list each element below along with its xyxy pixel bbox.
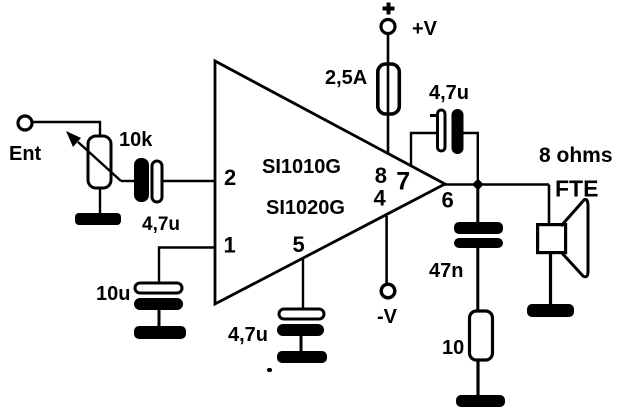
potentiometer R1 10k <box>66 129 153 188</box>
svg-text:SI1020G: SI1020G <box>266 197 345 219</box>
wire R2 to ground <box>476 360 479 397</box>
input terminal Ent <box>9 116 42 165</box>
svg-text:2,5A: 2,5A <box>325 67 367 89</box>
wire output rail to capacitor C5 <box>476 184 479 223</box>
wire pin 7 to capacitor C4 <box>411 133 436 166</box>
svg-text:7: 7 <box>396 168 410 196</box>
svg-text:-V: -V <box>377 306 398 328</box>
capacitor C1 4,7u (input coupling, electrolytic) <box>134 158 180 235</box>
wire input terminal to potentiometer top <box>32 122 100 137</box>
wire pin 1 to capacitor C2 <box>159 248 215 284</box>
svg-text:2: 2 <box>224 165 236 190</box>
ground (potentiometer) <box>75 213 121 225</box>
svg-text:SI1010G: SI1010G <box>262 156 341 178</box>
capacitor C2 10u (electrolytic) <box>96 283 183 310</box>
wire C5 to resistor R2 <box>476 248 479 312</box>
svg-text:10: 10 <box>442 337 464 359</box>
speaker FTE 8 ohms <box>538 144 613 277</box>
ground (C2) <box>134 326 186 339</box>
svg-text:47n: 47n <box>429 260 463 282</box>
wire pin 4 to -V terminal <box>385 216 388 284</box>
wire pot wiper to capacitor C1 <box>121 180 135 182</box>
svg-text:4,7u: 4,7u <box>429 82 469 104</box>
ground (R2) <box>456 395 505 407</box>
wire speaker to ground <box>549 254 552 306</box>
wire C1 to pin 2 <box>162 180 215 182</box>
ground (speaker) <box>527 304 574 317</box>
capacitor C4 4,7u (bootstrap, electrolytic) <box>429 82 469 154</box>
ground (C3) <box>277 351 327 363</box>
wire speaker branch down <box>548 185 551 226</box>
wire C3 to ground <box>300 336 303 352</box>
node +V terminal <box>381 3 438 41</box>
op-amp U1 (power amplifier triangle) <box>215 61 445 304</box>
svg-text:8: 8 <box>375 163 387 188</box>
svg-text:6: 6 <box>442 188 454 213</box>
node -V terminal <box>377 284 398 328</box>
svg-text:4,7u: 4,7u <box>228 324 268 346</box>
capacitor C5 47n <box>429 222 503 282</box>
stray dot <box>267 368 272 372</box>
svg-text:FTE: FTE <box>555 176 598 202</box>
resistor R2 10 <box>442 311 493 360</box>
svg-text:10k: 10k <box>119 129 153 151</box>
svg-text:Ent: Ent <box>9 143 42 165</box>
svg-text:4: 4 <box>374 186 387 211</box>
svg-text:1: 1 <box>224 233 236 258</box>
svg-text:8 ohms: 8 ohms <box>539 144 613 167</box>
wire C2 to ground <box>158 310 161 327</box>
wire pin 5 to capacitor C3 <box>302 258 304 310</box>
wire +V through fuse to pin 8 <box>387 34 390 153</box>
wire C4 to output rail <box>463 133 478 186</box>
capacitor C3 4,7u (electrolytic) <box>228 309 324 346</box>
svg-text:5: 5 <box>293 232 305 257</box>
junction output node <box>472 179 484 191</box>
svg-text:+V: +V <box>412 18 438 40</box>
wire pot bottom to ground <box>99 188 101 215</box>
svg-text:10u: 10u <box>96 283 130 305</box>
fuse F1 2,5A <box>325 64 399 114</box>
svg-text:4,7u: 4,7u <box>142 214 180 235</box>
wire pin 6 output to speaker branch <box>445 183 549 186</box>
